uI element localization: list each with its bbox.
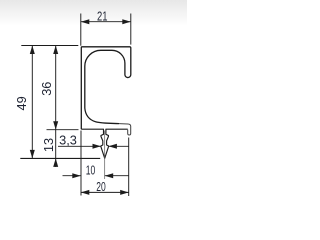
arrowhead 20 right [120, 190, 129, 195]
right extension line (20/3,3) [128, 138, 130, 197]
bottom reference line (49/13) [20, 157, 100, 159]
arrowhead 21 right [122, 19, 131, 24]
arrowhead 3,3 right (pointing left) [108, 144, 116, 149]
dim 3,3: right leader [109, 145, 129, 147]
arrowhead 3,3 left (pointing right) [93, 144, 101, 149]
dim 13: dimension line with outside tails [55, 130, 57, 167]
profile foot lip (right end) [119, 124, 131, 135]
svg-text:3,3: 3,3 [59, 133, 77, 148]
arrowhead 36 top [53, 46, 58, 55]
arrowhead 20 left [81, 190, 90, 195]
mid reference line (36/13) [47, 129, 79, 131]
dim 20: dimension line [81, 191, 129, 193]
dim 49: dimension line [31, 46, 33, 159]
svg-text:36: 36 [39, 82, 54, 96]
arrowhead 36 bottom [53, 121, 58, 130]
barbed dart at profile base [81, 129, 127, 158]
top reference line (49/36) [21, 45, 78, 47]
dart centerline [104, 131, 106, 179]
profile outline [81, 47, 131, 129]
svg-text:10: 10 [86, 162, 96, 177]
svg-text:49: 49 [14, 96, 29, 110]
dim 21: extension line left [80, 14, 82, 46]
arrowhead 13 bottom (outside, below) [53, 158, 58, 167]
arrowhead 21 left [81, 19, 90, 24]
svg-text:20: 20 [96, 179, 106, 194]
arrowhead 10 right (outside, pointing left) [105, 173, 114, 178]
dim 21: dimension line [81, 21, 131, 23]
dim 10: dimension line (outside arrows) [63, 175, 81, 177]
arrowhead 10 left (outside, pointing right) [72, 173, 81, 178]
technical drawing: aluminium handle profile cross-section with dimensions [0, 0, 187, 224]
dim 3,3: left leader [58, 145, 101, 147]
arrowhead 49 bottom [30, 150, 35, 159]
dim 36: dimension line [55, 46, 57, 130]
dim 21: extension line right [130, 14, 132, 45]
background [0, 0, 187, 26]
svg-text:13: 13 [41, 138, 56, 152]
arrowhead 49 top [30, 46, 35, 55]
left extension line (10/20) [80, 131, 82, 196]
svg-text:21: 21 [97, 9, 108, 24]
